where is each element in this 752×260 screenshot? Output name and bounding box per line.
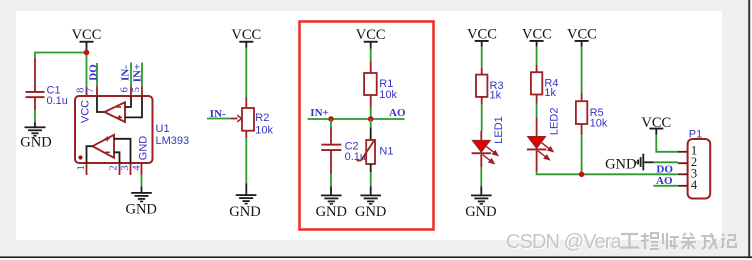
svg-text:GND: GND [355, 204, 386, 220]
wire pin 5 net IN+ [141, 63, 143, 87]
pin 1 stub [86, 164, 88, 176]
svg-text:GND: GND [20, 134, 51, 150]
wire R3 to LED1 [481, 104, 483, 131]
svg-text:GND: GND [316, 204, 347, 220]
svg-text:5: 5 [131, 87, 142, 92]
comparator B minus sign [105, 151, 110, 153]
capacitor C2 0.1u [321, 128, 366, 187]
junction dot at C2 branch [328, 116, 334, 122]
wire VCC to R5 [581, 47, 583, 93]
svg-text:GND: GND [605, 156, 636, 172]
wire pin 7 net DO [96, 63, 98, 86]
svg-text:GND: GND [229, 204, 260, 220]
svg-text:1k: 1k [544, 87, 556, 99]
watermark glyph 成 [701, 233, 717, 249]
svg-text:VCC: VCC [467, 26, 497, 42]
svg-text:GND: GND [465, 204, 496, 220]
resistor R4 1k [531, 65, 559, 104]
U1 designator labels [156, 123, 190, 147]
resistor R5 10k [576, 93, 608, 135]
svg-text:LED1: LED1 [493, 116, 505, 144]
comparator B triangle (bottom) [93, 135, 115, 158]
svg-text:6: 6 [120, 87, 131, 92]
junction dot at VCC node [84, 50, 90, 56]
connector P1 body [688, 139, 711, 199]
svg-text:LED2: LED2 [549, 108, 561, 136]
svg-text:VCC: VCC [72, 27, 102, 43]
junction dot at N1 branch [368, 116, 374, 122]
capacitor C1 0.1u [26, 58, 68, 122]
P1 pin 2 stub [678, 162, 688, 164]
svg-text:GND: GND [125, 202, 156, 218]
wire VCC to R4 [536, 47, 538, 65]
ground (C2) [316, 186, 347, 220]
P1 pin 1 stub [678, 151, 688, 153]
wire VCC to R3 [481, 47, 483, 68]
power VCC (P1) [641, 115, 671, 135]
wire net IN- into R2 wiper [207, 118, 231, 120]
ground (R2) [229, 184, 260, 221]
pin 7 stub [96, 86, 98, 96]
svg-text:1k: 1k [490, 90, 502, 102]
comparator A minus sign [116, 106, 121, 108]
ground (LED1) [465, 186, 496, 220]
svg-text:VCC: VCC [567, 26, 597, 42]
svg-text:GND: GND [138, 136, 150, 161]
svg-text:DO: DO [88, 64, 100, 81]
svg-text:U1: U1 [156, 123, 170, 135]
svg-text:7: 7 [85, 88, 96, 93]
svg-text:4: 4 [132, 165, 143, 171]
svg-text:10k: 10k [379, 89, 397, 101]
wire R2 to ground [245, 138, 247, 183]
browser scrollbar line right [748, 0, 750, 260]
power VCC (section 4, R4) [522, 26, 552, 47]
junction dot at R5 / DO wire [579, 172, 585, 178]
comparator B plus sign [105, 137, 110, 142]
svg-text:N1: N1 [379, 146, 393, 158]
svg-text:0.1u: 0.1u [47, 95, 68, 107]
svg-text:AO: AO [389, 107, 406, 119]
power VCC (section 2, R2) [231, 27, 261, 48]
svg-text:4: 4 [691, 178, 698, 192]
svg-text:CSDN @Vera: CSDN @Vera [506, 231, 622, 253]
wire pin 3 to comparator B non-inverting input [114, 139, 131, 164]
comparator A triangle (top) [104, 102, 125, 122]
wire VCC to R2 [245, 48, 247, 98]
wire R5 to DO net [581, 135, 583, 174]
power VCC (section 4, R5) [567, 26, 597, 47]
pin 8 stub (VCC) [86, 86, 88, 96]
ground (C1) [20, 122, 51, 150]
pin 4 stub (GND) [141, 164, 143, 176]
svg-text:IN-: IN- [120, 65, 132, 81]
pin 2 stub [119, 164, 121, 176]
red highlight rectangle [300, 22, 434, 230]
wire VCC to P1 pin 1 [656, 135, 678, 152]
pin 6 stub [130, 86, 132, 96]
resistor R1 10k [364, 61, 397, 108]
svg-text:IN+: IN+ [132, 64, 144, 83]
wire net AO to P1 pin 4 [654, 185, 679, 187]
power VCC (section 4, R3) [467, 26, 497, 47]
potentiometer R2 10k [231, 98, 274, 139]
pin 5 stub [141, 86, 143, 96]
svg-text:DO: DO [656, 163, 673, 175]
wire R4 to LED2 [536, 104, 538, 117]
wire comparator B output to pin 1 [87, 146, 93, 163]
svg-text:10k: 10k [590, 118, 608, 130]
power VCC (section 3, R1) [356, 27, 386, 49]
pin 1 marker dot [78, 155, 82, 159]
wire node to N1 [370, 119, 372, 128]
ground (U1 pin 4) [125, 187, 156, 218]
wire node IN+ / AO horizontal [308, 118, 405, 120]
svg-text:R2: R2 [255, 112, 269, 124]
comparator A plus sign [117, 115, 122, 120]
wire node to C2 [330, 119, 332, 128]
svg-text:IN-: IN- [210, 108, 226, 120]
svg-text:IN+: IN+ [310, 107, 329, 119]
svg-text:P1: P1 [689, 129, 702, 141]
resistor R3 1k [476, 68, 504, 104]
separator line bottom [0, 256, 752, 258]
wire DO net from LED2 to P1 pin 3 [537, 171, 678, 174]
wire pin 5 to comparator A non-inverting input [125, 97, 142, 118]
P1 pin 3 stub [678, 173, 688, 175]
wire VCC to C1 and U1 pin 8 [35, 52, 87, 87]
thermistor N1 [357, 128, 394, 187]
svg-text:VCC: VCC [356, 27, 386, 43]
power VCC (section 1, LM393) [72, 27, 102, 53]
op-amp U1 LM393 body [75, 96, 153, 163]
svg-text:VCC: VCC [522, 26, 552, 42]
svg-text:1: 1 [76, 165, 87, 170]
svg-text:VCC: VCC [231, 27, 261, 43]
pin 3 stub [130, 164, 132, 176]
wire VCC to R1 [370, 49, 372, 62]
watermark glyph 工 [620, 234, 639, 248]
wire pin 6 to comparator A inverting input [125, 97, 131, 108]
svg-text:VCC: VCC [79, 100, 91, 123]
wire pin 4 to ground [141, 175, 143, 187]
wire R1 to AO node [370, 108, 372, 120]
svg-text:3: 3 [120, 165, 131, 170]
watermark glyph 记 [721, 234, 736, 248]
P1 pin 4 stub [678, 185, 688, 187]
svg-text:LM393: LM393 [156, 135, 190, 147]
LED LED2 [527, 117, 553, 171]
watermark glyph 养 [681, 233, 696, 249]
wire pin 6 net IN- [130, 63, 132, 87]
watermark glyph 师 [663, 233, 679, 249]
svg-text:10k: 10k [255, 124, 273, 136]
wire pin 2 to comparator B inverting input [114, 152, 120, 163]
ground symbol (P1 pin 2, sideways) [605, 154, 653, 173]
ground (N1) [355, 186, 386, 220]
watermark glyph 程 [641, 233, 659, 249]
wire comparator A output to pin 7 [97, 97, 104, 113]
svg-text:2: 2 [109, 165, 120, 170]
LED LED1 [472, 131, 498, 186]
wire P1 pin 2 to ground [654, 161, 679, 163]
